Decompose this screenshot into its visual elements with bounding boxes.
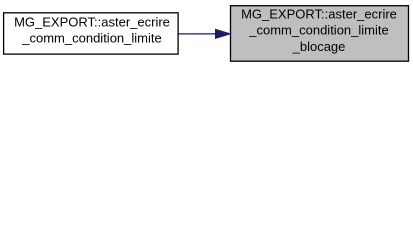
svg-text:_blocage: _blocage <box>292 39 346 54</box>
svg-text:_comm_condition_limite: _comm_condition_limite <box>248 23 388 38</box>
svg-text:MG_EXPORT::aster_ecrire: MG_EXPORT::aster_ecrire <box>241 6 397 21</box>
svg-text:_comm_condition_limite: _comm_condition_limite <box>21 30 161 45</box>
svg-text:MG_EXPORT::aster_ecrire: MG_EXPORT::aster_ecrire <box>14 14 170 29</box>
